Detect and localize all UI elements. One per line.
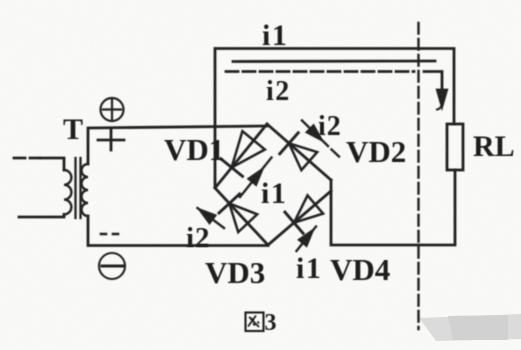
diode VD2 cathode bar <box>280 133 298 154</box>
resistor RL body <box>447 124 463 170</box>
transformer T primary bottom lead <box>19 214 64 217</box>
diode VD3 triangle <box>229 203 257 232</box>
bridge edge VD2 (top corner to right corner) <box>267 124 331 180</box>
i2 indicator corner into RL branch <box>424 72 442 94</box>
watermark swoosh bottom right <box>419 314 521 341</box>
polarity dots at secondary bottom <box>101 233 118 236</box>
transformer T secondary winding <box>82 164 89 216</box>
diode VD2 triangle <box>289 143 317 170</box>
minus terminal symbol circled <box>99 253 125 279</box>
bridge edge VD4 (bottom corner to right corner) <box>268 191 331 245</box>
plus sign at secondary top <box>98 130 124 150</box>
i1 arrow center of bridge <box>240 158 272 198</box>
plus terminal symbol circled <box>101 98 124 121</box>
bridge edge VD1 (top corner to left corner) <box>215 124 267 188</box>
wire: left vertical from top rail to bridge left corner <box>214 49 217 188</box>
caption figure 3 glyph tu <box>246 313 264 332</box>
i1 arrow near VD4 <box>297 227 317 252</box>
diode VD4 cathode bar <box>285 212 303 233</box>
wire: top rail from node A to right side <box>216 49 454 125</box>
vertical dashed separator line <box>417 23 419 329</box>
i2 current indicator line (dashed) <box>226 70 414 73</box>
i1 current indicator line (solid) <box>233 60 435 63</box>
diode VD1 triangle <box>232 131 265 167</box>
transformer core bar 1 <box>74 158 76 218</box>
transformer T primary winding <box>64 170 71 214</box>
transformer T primary top lead <box>40 158 64 170</box>
wire: secondary top to bridge top corner <box>88 126 267 164</box>
i2 arrow near VD2 <box>302 121 339 157</box>
transformer T primary top lead (dashed stubs) <box>14 157 40 160</box>
diode VD4 triangle <box>294 195 323 222</box>
down arrow into RL branch <box>437 90 447 110</box>
bridge edge VD3 (left corner to bottom corner) <box>215 188 268 245</box>
diode VD1 cathode bar <box>221 159 243 177</box>
transformer core bar 2 <box>79 158 81 218</box>
i2 arrow near VD3 <box>198 208 225 228</box>
wire: bottom rail left (transformer to bridge bottom corner) <box>88 216 268 246</box>
diode VD3 cathode bar <box>219 194 240 213</box>
wire: bottom rail right (bridge right corner to RL bottom) <box>331 170 455 245</box>
